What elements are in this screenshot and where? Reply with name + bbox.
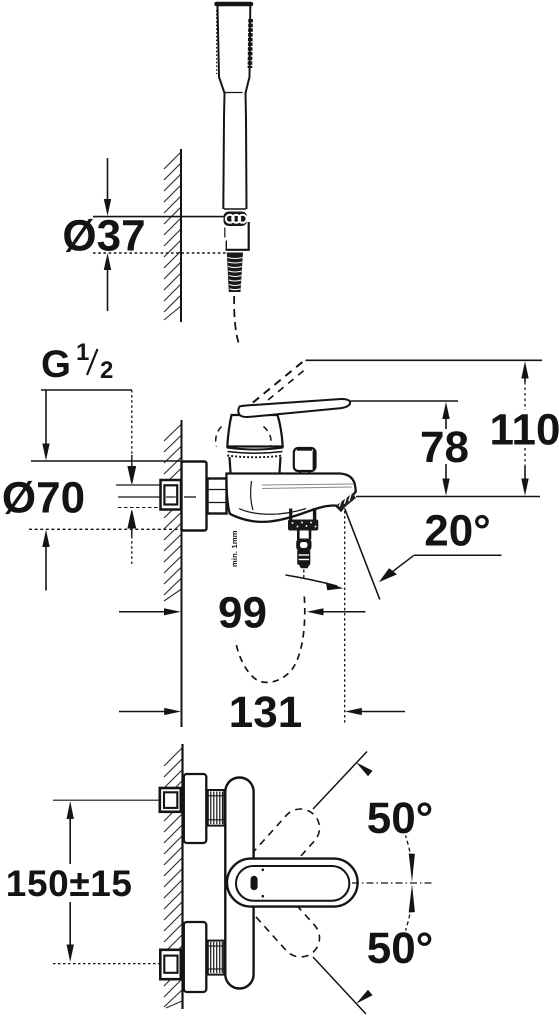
shower outlet lower connector	[298, 531, 310, 540]
svg-text:78: 78	[420, 423, 469, 472]
hex nut (middle)	[208, 479, 227, 514]
wall hatching (top section)	[164, 152, 181, 320]
reference line 110 top	[306, 359, 543, 361]
label G 1/2	[41, 339, 113, 386]
dimension 78	[420, 402, 469, 496]
svg-text:2: 2	[100, 357, 113, 384]
diverter knob	[294, 448, 316, 475]
dashed hose loop	[236, 597, 305, 683]
wall bracket	[225, 222, 249, 250]
supply fitting top (bottom view)	[160, 788, 181, 812]
dashed lever position upper	[222, 801, 327, 912]
20 degree swivel arc with arrow	[286, 575, 344, 590]
wall line (bottom section)	[181, 744, 183, 1009]
spout tip vertical dotted line	[344, 511, 346, 724]
50 degree arrow upper	[356, 762, 372, 776]
wall hatching (bottom section)	[164, 748, 182, 1008]
lever axis centerline	[352, 882, 433, 884]
dimension Ø37 arrows and line	[104, 158, 111, 311]
svg-text:110: 110	[490, 406, 559, 455]
svg-text:20°: 20°	[424, 507, 491, 556]
spout inner lines	[239, 481, 353, 514]
wall line (middle section)	[181, 420, 183, 727]
hose crimp	[297, 551, 310, 569]
dashed swivel arcs beside dome	[216, 427, 272, 447]
50 degree line lower	[313, 957, 366, 1014]
outlet axis dash	[303, 570, 305, 578]
dimension Ø70 extension lines	[31, 460, 181, 462]
150 dimension extension lines	[53, 799, 160, 801]
svg-text:50°: 50°	[367, 794, 434, 843]
svg-text:Ø70: Ø70	[2, 474, 85, 523]
shower outlet connector bars	[291, 508, 315, 521]
body below belt	[230, 457, 281, 473]
body capsule (bottom view)	[225, 778, 253, 989]
dashed lever position lower	[222, 854, 327, 965]
svg-text:Ø37: Ø37	[62, 212, 145, 261]
supply fitting bottom (bottom view)	[160, 950, 181, 979]
dimension 131	[119, 688, 405, 737]
angular dimension arrows at centerline	[409, 854, 415, 913]
label 20 degrees with leader	[379, 507, 502, 583]
dimension Ø37 extension lines	[93, 216, 224, 218]
hand shower handle	[223, 118, 246, 209]
ribbed nut top (bottom view)	[208, 790, 225, 826]
20 degree direction line	[345, 509, 380, 600]
hand shower head	[217, 4, 252, 118]
reference line 78 top	[351, 400, 459, 402]
wall line (top section)	[180, 149, 182, 322]
reference line spout bottom	[356, 496, 540, 498]
svg-text:1: 1	[76, 339, 89, 366]
svg-text:50°: 50°	[367, 924, 434, 973]
dimension 150+-15	[6, 801, 133, 962]
ribbed nut bottom (bottom view)	[208, 941, 224, 975]
lever (side view)	[238, 399, 350, 417]
supply fitting (in-wall, middle)	[161, 480, 182, 510]
hose spring guard	[227, 253, 243, 293]
hose dashed continuation	[234, 296, 238, 343]
faucet body and spout (side view)	[226, 474, 355, 522]
svg-text:150±15: 150±15	[6, 863, 133, 904]
aerator	[336, 493, 356, 510]
50 degree line upper	[313, 752, 367, 810]
svg-text:99: 99	[218, 589, 267, 638]
shower outlet knurled nut	[288, 520, 318, 531]
svg-text:min. 1mm: min. 1mm	[230, 530, 239, 567]
G1/2 leader line	[41, 390, 136, 566]
supply fitting lines (middle)	[116, 485, 177, 508]
escutcheon bottom (bottom view)	[184, 922, 207, 992]
wall hatching (middle section)	[164, 424, 182, 601]
dashed raised-lever lines	[242, 360, 308, 417]
escutcheon top (bottom view)	[184, 774, 207, 843]
50 degree arrow lower	[356, 990, 372, 1004]
dimension Ø70 arrows and line	[42, 390, 49, 591]
lever (top view)	[227, 859, 358, 907]
dome belt rings	[227, 448, 283, 458]
hose nut	[296, 539, 311, 552]
dimension 99	[119, 589, 366, 638]
cartridge dome	[227, 415, 282, 447]
svg-text:131: 131	[229, 688, 302, 737]
escutcheon (middle)	[182, 462, 207, 531]
dimension 110	[490, 361, 559, 495]
svg-text:G: G	[41, 343, 71, 386]
bracket knurled nut	[224, 212, 248, 227]
angular arc stubs	[406, 836, 410, 931]
